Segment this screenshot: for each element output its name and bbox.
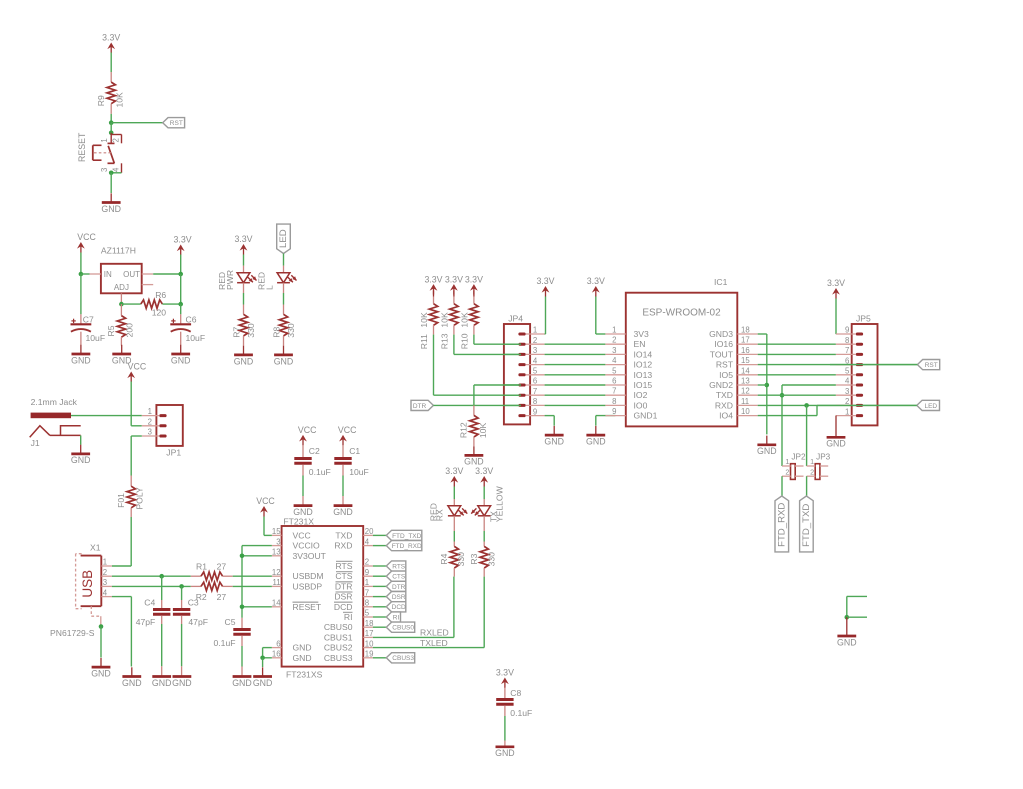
wire	[283, 254, 285, 266]
resistor R13 10K	[440, 291, 458, 350]
svg-text:VCC: VCC	[256, 496, 275, 506]
wire	[373, 606, 386, 608]
wire JP5 pin 1 to ground	[835, 415, 837, 417]
wire RXD to JP5 pin 2 and LED flag	[758, 404, 917, 406]
svg-text:IN: IN	[104, 270, 112, 279]
wire	[373, 534, 386, 536]
pin header JP5	[817, 314, 917, 426]
svg-text:GND2: GND2	[709, 380, 733, 390]
net flag RI	[386, 612, 400, 622]
power symbol 3.3V (RX LED)	[445, 466, 463, 486]
wire R11 to JP4 pin 7	[434, 394, 520, 396]
wire to RST flag	[111, 122, 163, 124]
svg-text:PWR: PWR	[225, 270, 235, 290]
wire	[110, 114, 112, 123]
svg-text:3.3V: 3.3V	[102, 33, 120, 43]
wire JP4 to IC1	[545, 374, 606, 376]
svg-text:RXD: RXD	[334, 541, 352, 551]
svg-text:10: 10	[741, 407, 750, 416]
svg-text:IO13: IO13	[634, 370, 653, 380]
svg-text:3: 3	[100, 168, 109, 172]
wire IO5 to JP5 pin 5	[758, 374, 836, 376]
svg-text:10uF: 10uF	[186, 333, 206, 343]
net flag FTD_RXD	[386, 541, 422, 551]
svg-text:X1: X1	[90, 542, 101, 552]
svg-text:13: 13	[272, 548, 281, 557]
svg-text:1: 1	[845, 407, 849, 416]
jumper JP3	[807, 452, 831, 479]
wire R10 to JP4 pin 2	[474, 343, 519, 345]
svg-text:10uF: 10uF	[349, 467, 369, 477]
node	[178, 272, 183, 277]
node	[179, 584, 184, 589]
svg-text:8: 8	[612, 397, 616, 406]
ground	[122, 667, 142, 688]
ground	[172, 677, 192, 688]
wire	[243, 283, 245, 305]
svg-text:IO15: IO15	[634, 380, 653, 390]
svg-text:5: 5	[612, 366, 617, 375]
svg-text:3.3V: 3.3V	[536, 276, 554, 286]
LED RX RED	[429, 499, 468, 521]
wire	[433, 335, 435, 396]
wire	[373, 616, 386, 618]
svg-text:CBUS3: CBUS3	[392, 655, 414, 662]
svg-text:27: 27	[217, 562, 227, 572]
svg-text:GND: GND	[171, 355, 191, 365]
ground	[333, 506, 353, 517]
svg-text:3.3V: 3.3V	[587, 276, 605, 286]
svg-text:RI: RI	[393, 614, 400, 621]
wire TXLED net	[373, 638, 484, 648]
svg-text:47pF: 47pF	[188, 617, 208, 627]
svg-text:R5: R5	[106, 325, 116, 336]
svg-text:330: 330	[286, 323, 296, 338]
svg-text:GND1: GND1	[634, 411, 658, 421]
svg-text:VCC: VCC	[298, 425, 317, 435]
svg-text:11: 11	[741, 397, 749, 406]
svg-text:1: 1	[100, 138, 109, 142]
node	[260, 656, 265, 661]
svg-text:C6: C6	[186, 314, 197, 324]
net flag DTR	[386, 581, 406, 591]
svg-text:CBUS0: CBUS0	[392, 625, 414, 632]
svg-text:2: 2	[612, 336, 616, 345]
pin header JP4	[503, 314, 545, 425]
node	[178, 302, 183, 307]
ground	[837, 617, 857, 647]
svg-text:13: 13	[741, 377, 750, 386]
svg-text:R12: R12	[459, 422, 469, 438]
ground	[71, 445, 91, 465]
wire	[596, 297, 606, 335]
svg-text:RESET: RESET	[77, 132, 87, 162]
svg-text:CBUS1: CBUS1	[324, 632, 353, 642]
wire	[373, 657, 386, 659]
wire	[80, 435, 82, 444]
svg-text:FTD_RXD: FTD_RXD	[776, 503, 787, 547]
wire USB pin 4 to ground	[112, 597, 131, 667]
svg-text:YELLOW: YELLOW	[495, 485, 505, 522]
net flag FTD_TXD	[386, 530, 422, 540]
svg-text:VCC: VCC	[293, 530, 311, 540]
svg-text:10K: 10K	[460, 312, 470, 328]
wire	[180, 274, 182, 304]
svg-text:27: 27	[217, 592, 227, 602]
svg-text:8: 8	[845, 336, 849, 345]
svg-text:2: 2	[103, 568, 107, 577]
node GND2 junction	[765, 383, 770, 388]
svg-text:10K: 10K	[419, 312, 429, 328]
wire R13 to JP4 pin 3	[454, 353, 519, 355]
power symbol VCC (C1)	[338, 425, 357, 445]
wire	[110, 53, 112, 73]
svg-text:JP3: JP3	[816, 452, 831, 461]
wire TOUT to JP5 pin 7	[758, 353, 836, 355]
svg-text:AZ1117H: AZ1117H	[101, 246, 136, 256]
svg-text:R8: R8	[272, 326, 282, 337]
switch S1 RESET	[77, 132, 121, 173]
ground	[544, 426, 564, 447]
wire	[781, 476, 783, 496]
svg-text:330: 330	[486, 552, 496, 567]
wire RXLED net	[373, 628, 454, 638]
jumper JP2	[782, 452, 806, 479]
svg-text:RST: RST	[716, 360, 734, 370]
svg-text:4: 4	[533, 356, 538, 365]
svg-text:10K: 10K	[440, 312, 450, 328]
svg-text:1: 1	[148, 407, 152, 416]
power symbol 3.3V (R13)	[445, 274, 463, 294]
svg-text:LED: LED	[278, 229, 289, 248]
svg-text:POLY: POLY	[135, 487, 145, 510]
svg-text:3.3V: 3.3V	[445, 466, 463, 476]
resistor R1 27	[191, 562, 233, 581]
wire	[262, 658, 264, 667]
wire JP5 pin 4 to JP2	[782, 385, 836, 466]
node	[79, 272, 84, 277]
wire	[373, 596, 386, 598]
net flag RST	[163, 118, 185, 128]
LED PWR RED	[217, 266, 257, 290]
wire	[180, 255, 182, 275]
svg-text:C7: C7	[83, 314, 94, 324]
node	[109, 131, 114, 136]
svg-text:7: 7	[533, 387, 537, 396]
svg-text:TXLED: TXLED	[420, 638, 448, 648]
svg-text:GND: GND	[333, 507, 353, 517]
svg-text:3V3: 3V3	[634, 329, 650, 339]
svg-text:CTS: CTS	[335, 571, 352, 581]
svg-text:DSR: DSR	[392, 594, 406, 601]
svg-text:2: 2	[111, 138, 120, 142]
svg-text:FT231XS: FT231XS	[286, 669, 323, 679]
svg-text:8: 8	[365, 599, 369, 608]
LED L RED	[257, 266, 297, 290]
svg-text:TXD: TXD	[335, 530, 352, 540]
resistor R11 10K	[419, 291, 437, 350]
svg-text:2.1mm Jack: 2.1mm Jack	[31, 397, 78, 407]
net flag LED	[277, 224, 291, 253]
svg-text:R13: R13	[440, 333, 450, 349]
capacitor C6 10uF	[170, 314, 205, 345]
svg-text:12: 12	[272, 568, 281, 577]
wire	[453, 516, 455, 542]
svg-text:IO12: IO12	[634, 360, 653, 370]
ground	[71, 345, 91, 366]
svg-text:FTD_TXD: FTD_TXD	[392, 533, 422, 540]
svg-text:GND: GND	[464, 456, 484, 466]
wire	[110, 173, 112, 193]
power symbol 3.3V (JP4 pin 1)	[536, 276, 554, 296]
wire JP4 to IC1	[545, 343, 606, 345]
power symbol 3.3V (JP5)	[827, 278, 845, 298]
svg-text:5: 5	[533, 367, 538, 376]
svg-text:3: 3	[612, 346, 616, 355]
power symbol 3.3V (reset pull-up)	[102, 33, 120, 53]
svg-text:DTR: DTR	[392, 584, 406, 591]
svg-text:3.3V: 3.3V	[465, 274, 483, 284]
node RST junction	[109, 120, 114, 125]
wire USBDM from USB pin 2	[112, 575, 191, 577]
wire	[283, 283, 285, 305]
svg-text:PN61729-S: PN61729-S	[50, 628, 95, 638]
ground	[464, 446, 484, 466]
wire RST to flag	[758, 364, 918, 366]
ground	[293, 506, 313, 517]
svg-text:2: 2	[533, 336, 537, 345]
wire	[180, 304, 182, 314]
wire	[544, 297, 547, 335]
svg-text:2: 2	[810, 467, 814, 476]
voltage regulator AZ1117H	[90, 246, 154, 305]
svg-text:1: 1	[103, 558, 107, 567]
wire	[80, 253, 82, 275]
svg-text:1: 1	[785, 457, 789, 466]
ground	[586, 426, 606, 447]
connector X1 USB	[50, 542, 112, 638]
power symbol 3.3V (R11)	[424, 274, 442, 294]
svg-text:R9: R9	[96, 95, 106, 106]
wire TXLED vertical	[483, 577, 485, 648]
svg-text:USB: USB	[80, 570, 95, 598]
svg-text:IO4: IO4	[719, 411, 733, 421]
svg-text:TXD: TXD	[716, 390, 733, 400]
svg-text:C5: C5	[225, 617, 236, 627]
power symbol VCC (regulator input)	[77, 232, 97, 252]
power symbol 3.3V (C8)	[496, 668, 514, 688]
wire	[131, 382, 142, 426]
resistor R8 330	[272, 305, 297, 346]
svg-text:R4: R4	[439, 553, 449, 564]
svg-text:1: 1	[612, 326, 616, 335]
node shield junction	[99, 624, 104, 629]
wire	[847, 616, 867, 618]
svg-text:DSR: DSR	[334, 592, 352, 602]
wire GND2	[758, 384, 767, 386]
svg-text:200: 200	[125, 323, 135, 338]
wire	[233, 575, 272, 577]
svg-text:4: 4	[612, 356, 617, 365]
svg-text:GND: GND	[293, 507, 313, 517]
ground	[234, 346, 254, 367]
wire	[80, 274, 82, 314]
svg-text:DTR: DTR	[335, 581, 353, 591]
net flag CBUS3	[386, 653, 414, 663]
svg-text:4: 4	[365, 537, 370, 546]
svg-text:6: 6	[533, 377, 537, 386]
wire JP4 to IC1	[545, 404, 606, 406]
wire	[243, 255, 245, 266]
net flag DTR (IO0)	[411, 400, 433, 410]
svg-text:GND: GND	[253, 678, 273, 688]
svg-text:20: 20	[365, 527, 374, 536]
node	[109, 171, 114, 176]
svg-text:GND: GND	[101, 204, 121, 214]
svg-text:3.3V: 3.3V	[496, 668, 514, 678]
net flag RST	[917, 360, 939, 370]
node	[845, 615, 850, 620]
power symbol 3.3V (IC1 3V3)	[587, 276, 605, 296]
svg-text:7: 7	[612, 387, 616, 396]
svg-text:CBUS0: CBUS0	[324, 622, 353, 632]
capacitor C1 10uF	[334, 445, 368, 505]
svg-text:ADJ: ADJ	[114, 283, 129, 292]
svg-text:GND: GND	[152, 678, 172, 688]
wire	[373, 575, 386, 577]
ground	[253, 667, 273, 688]
capacitor C5 0.1uF	[214, 617, 251, 676]
svg-text:GND: GND	[495, 748, 515, 758]
wire jack to JP1 pin 1	[71, 415, 142, 417]
wire	[373, 565, 386, 567]
wire JP3 drop	[806, 405, 808, 466]
svg-text:9: 9	[365, 568, 369, 577]
wire IO15 row to JP4 pin 6	[474, 385, 519, 405]
svg-text:RST: RST	[170, 120, 183, 127]
svg-text:JP4: JP4	[508, 314, 523, 324]
wire JP4 to IC1	[545, 394, 606, 396]
svg-text:R2: R2	[196, 592, 207, 602]
svg-text:R3: R3	[469, 553, 479, 564]
svg-text:2: 2	[365, 558, 369, 567]
resistor R3 330	[469, 542, 497, 577]
svg-text:10: 10	[365, 639, 374, 648]
svg-text:3: 3	[845, 387, 849, 396]
svg-text:330: 330	[456, 552, 466, 567]
svg-text:LED: LED	[924, 403, 937, 410]
svg-text:10K: 10K	[478, 423, 488, 439]
svg-text:RXLED: RXLED	[420, 628, 449, 638]
capacitor C4 47pF	[136, 576, 171, 676]
wire IC1 GND1 to ground	[596, 416, 616, 426]
node	[159, 574, 164, 579]
net flag CTS	[386, 571, 406, 581]
wire	[483, 487, 485, 500]
svg-text:GND: GND	[544, 437, 564, 447]
svg-text:IO2: IO2	[634, 390, 648, 400]
svg-text:DTR: DTR	[413, 403, 427, 410]
wire	[847, 596, 867, 617]
svg-text:RTS: RTS	[392, 563, 406, 570]
svg-text:GND: GND	[71, 455, 91, 465]
wire GND3 to ground rail	[758, 334, 767, 434]
resistor R4 330	[439, 542, 466, 577]
wire	[373, 626, 386, 628]
svg-text:0.1uF: 0.1uF	[510, 708, 532, 718]
svg-text:2: 2	[148, 417, 152, 426]
svg-text:EN: EN	[634, 339, 646, 349]
svg-text:10K: 10K	[115, 92, 125, 108]
svg-text:14: 14	[741, 366, 750, 375]
svg-text:7: 7	[845, 346, 849, 355]
svg-text:DCD: DCD	[392, 604, 406, 611]
svg-text:GND: GND	[826, 438, 846, 448]
power symbol VCC (C2)	[298, 425, 317, 445]
svg-text:3: 3	[103, 578, 107, 587]
wire	[453, 335, 455, 355]
svg-text:3.3V: 3.3V	[827, 278, 845, 288]
wire VCC to IN	[81, 273, 90, 275]
svg-text:DCD: DCD	[334, 602, 353, 612]
svg-text:L: L	[265, 285, 275, 290]
node	[240, 605, 245, 610]
svg-text:11: 11	[273, 578, 281, 587]
svg-text:GND: GND	[586, 437, 606, 447]
svg-text:GND: GND	[232, 678, 252, 688]
svg-text:VCCIO: VCCIO	[293, 541, 321, 551]
svg-text:C4: C4	[144, 597, 155, 607]
svg-text:17: 17	[365, 629, 374, 638]
wire	[453, 487, 455, 500]
resistor R5 200	[106, 304, 135, 345]
svg-text:3.3V: 3.3V	[475, 466, 493, 476]
svg-text:0.1uF: 0.1uF	[214, 638, 236, 648]
svg-text:GND: GND	[293, 653, 312, 663]
resistor R7 330	[232, 305, 257, 346]
svg-text:16: 16	[272, 650, 281, 659]
wire JP4 to IC1	[545, 353, 606, 355]
wire DTR to JP4 pin 8	[433, 404, 519, 406]
svg-text:ESP-WROOM-02: ESP-WROOM-02	[642, 308, 721, 319]
wire	[233, 585, 272, 587]
resistor R6 120	[121, 290, 180, 317]
power symbol VCC (JP1)	[127, 362, 147, 382]
svg-text:RX: RX	[435, 509, 445, 521]
wire	[835, 299, 837, 335]
ground	[495, 747, 515, 758]
svg-text:3: 3	[148, 428, 152, 437]
svg-text:GND: GND	[757, 446, 777, 456]
svg-text:120: 120	[152, 307, 167, 317]
node RXD junction	[804, 403, 809, 408]
net flag CBUS0	[386, 622, 414, 632]
svg-text:USBDM: USBDM	[293, 571, 324, 581]
svg-text:CBUS3: CBUS3	[324, 653, 353, 663]
wire	[110, 123, 112, 133]
node TXD junction	[780, 393, 785, 398]
svg-text:6: 6	[276, 639, 280, 648]
svg-text:FTD_RXD: FTD_RXD	[392, 543, 422, 550]
svg-text:GND: GND	[274, 356, 294, 366]
fuse F01 POLY	[116, 476, 145, 518]
svg-text:9: 9	[612, 407, 616, 416]
svg-text:1: 1	[365, 578, 369, 587]
wire FT231X GND pins	[263, 648, 272, 658]
wire	[806, 476, 808, 496]
svg-text:2: 2	[785, 467, 789, 476]
svg-text:GND: GND	[293, 643, 312, 653]
